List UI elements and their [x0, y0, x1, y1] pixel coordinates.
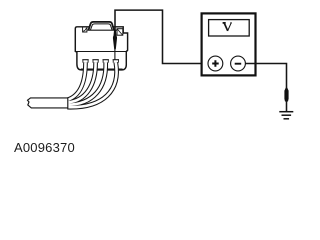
plus terminal circle: [208, 56, 223, 71]
connector latch hood outer: [88, 22, 114, 30]
V label: [223, 23, 232, 31]
wire 1 core: [67, 62, 85, 100]
wire 4 core: [67, 62, 116, 107]
probe cavity box: [117, 29, 123, 36]
voltmeter body: [202, 13, 256, 75]
wire 2 core: [67, 62, 95, 102]
wire 4 outline: [67, 62, 116, 107]
wire 1 outline: [67, 62, 85, 100]
plus sign: [212, 60, 219, 67]
minus terminal circle: [231, 56, 246, 71]
wire from ground probe to ground: [286, 101, 288, 111]
terminal slot 3: [103, 60, 109, 63]
terminal pin under probe: [114, 49, 116, 60]
connector bottom thick edge: [81, 68, 123, 70]
wire 3 outline: [67, 62, 105, 104]
caption A0096370: [14, 140, 75, 155]
test lead wire from probe to voltmeter +: [115, 10, 208, 63]
hood platform line: [87, 29, 117, 31]
terminal slot 1: [82, 60, 88, 63]
ground symbol: [279, 112, 293, 119]
wire 3 core: [67, 62, 105, 104]
test lead wire from voltmeter - to ground probe: [245, 64, 286, 90]
terminal slot 4: [113, 60, 119, 63]
wire 2 outline: [67, 62, 95, 102]
connector internal shelf line: [76, 51, 128, 53]
probe cavity diagonal: [117, 29, 122, 35]
harness tube: [28, 98, 68, 108]
minus sign: [235, 63, 242, 65]
terminal slot 2: [92, 60, 98, 63]
connector C1 housing: [75, 27, 127, 70]
ground probe: [284, 88, 288, 102]
test probe at connector: [113, 30, 117, 50]
voltmeter display: [209, 20, 250, 36]
connector latch hood inner: [90, 24, 112, 30]
latch tab box: [83, 27, 87, 32]
latch tab hook: [83, 28, 86, 31]
